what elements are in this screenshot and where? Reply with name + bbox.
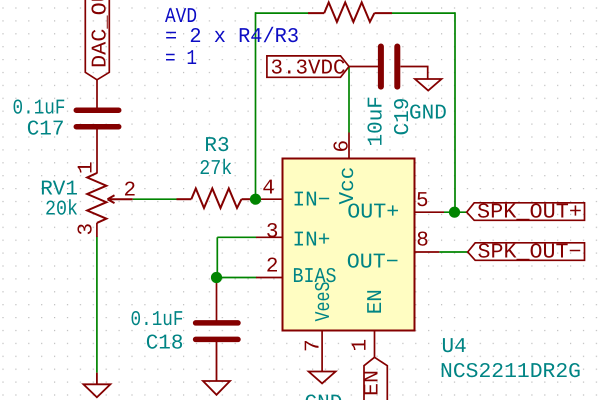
wire RV1 wiper to R3: [133, 198, 177, 200]
wire 3.3VDC to Vcc pin: [348, 67, 350, 133]
pin 7 stub: [321, 331, 323, 372]
pin 2 stub: [256, 277, 282, 279]
svg-text:4: 4: [262, 178, 275, 201]
pin 1 stub: [374, 331, 376, 357]
junction at pin 5: [449, 207, 460, 218]
potentiometer RV1: [87, 173, 133, 223]
power flag 3.3VDC: [267, 56, 349, 77]
wire pin 8 to SPK_OUT- label: [439, 251, 467, 253]
svg-text:10uF: 10uF: [366, 96, 389, 146]
svg-text:EN: EN: [362, 370, 385, 396]
svg-text:SPK_OUT+: SPK_OUT+: [477, 201, 582, 224]
svg-text:8: 8: [416, 229, 429, 252]
global label SPK_OUT-: [468, 243, 585, 260]
wire C17 to RV1: [96, 129, 98, 174]
junction at bias node: [211, 272, 222, 283]
svg-text:OUT+: OUT+: [347, 202, 399, 225]
svg-text:IN+: IN+: [293, 230, 331, 253]
svg-text:0.1uF: 0.1uF: [13, 97, 66, 120]
wire pin 5 to SPK_OUT+ label: [444, 211, 467, 213]
svg-text:2: 2: [124, 179, 137, 202]
global label EN: [364, 357, 387, 400]
ground at pin 7: [309, 372, 336, 384]
ground at C19: [415, 79, 442, 91]
wire C19 to ground: [401, 67, 428, 80]
resistor R3: [177, 189, 257, 209]
ground under C18: [203, 342, 230, 395]
svg-text:DAC_OUT: DAC_OUT: [90, 0, 113, 68]
svg-text:Vcc: Vcc: [337, 167, 360, 205]
global label DAC_OUT: [85, 0, 109, 80]
svg-text:1: 1: [350, 339, 373, 352]
svg-text:3: 3: [76, 223, 99, 236]
svg-text:C18: C18: [146, 332, 184, 355]
svg-text:5: 5: [416, 190, 429, 213]
svg-text:= 1: = 1: [165, 48, 197, 71]
pin 8 stub: [415, 251, 439, 253]
svg-text:C17: C17: [27, 118, 65, 141]
wire bias node to pin 2: [217, 277, 257, 279]
pin 3 stub: [256, 236, 282, 238]
global label SPK_OUT+: [467, 203, 585, 221]
svg-text:= 2 x R4/R3: = 2 x R4/R3: [165, 26, 299, 49]
capacitor C18: [196, 323, 238, 340]
svg-text:7: 7: [303, 339, 326, 352]
svg-text:R3: R3: [204, 135, 229, 158]
wire top left horizontal: [255, 12, 308, 14]
svg-text:GND: GND: [409, 102, 447, 125]
wire RV1 pin3 to ground: [96, 237, 98, 373]
pin 4 stub: [256, 198, 282, 200]
ground under RV1: [83, 373, 110, 398]
svg-text:20k: 20k: [45, 198, 78, 221]
svg-text:EN: EN: [365, 289, 388, 314]
svg-text:U4: U4: [442, 336, 467, 359]
svg-text:IN−: IN−: [293, 189, 331, 212]
C18 top lead: [216, 278, 218, 321]
capacitor C17: [76, 110, 118, 127]
svg-text:6: 6: [332, 140, 355, 153]
resistor R4 top: [308, 2, 392, 22]
svg-text:3: 3: [266, 221, 279, 244]
wire top right horizontal: [392, 12, 455, 14]
svg-text:27k: 27k: [199, 158, 232, 181]
wire right vertical feedback: [454, 12, 456, 212]
wire DAC_OUT to C17: [96, 80, 98, 108]
pin 5 stub: [415, 211, 444, 213]
svg-text:NCS2211DR2G: NCS2211DR2G: [440, 361, 581, 384]
wire vertical pin3 to bias node: [216, 237, 218, 277]
capacitor C19: [381, 47, 397, 87]
wire 3.3VDC to C19: [349, 66, 378, 68]
svg-text:GND: GND: [305, 393, 343, 400]
svg-text:SPK_OUT−: SPK_OUT−: [478, 242, 582, 265]
junction at pin 4: [250, 194, 261, 205]
op-amp U4 body: [283, 159, 415, 331]
svg-text:1: 1: [76, 161, 99, 174]
svg-text:VeeS: VeeS: [313, 282, 336, 322]
svg-text:0.1uF: 0.1uF: [131, 309, 184, 332]
pin 6 stub: [348, 133, 350, 159]
svg-text:3.3VDC: 3.3VDC: [271, 57, 346, 80]
wire to pin 3: [217, 236, 256, 238]
RV1 bottom stub: [96, 223, 98, 237]
svg-text:2: 2: [266, 256, 279, 279]
svg-text:OUT−: OUT−: [347, 252, 399, 275]
note AVD formula: [165, 6, 299, 71]
wire left vertical feedback: [255, 12, 257, 199]
